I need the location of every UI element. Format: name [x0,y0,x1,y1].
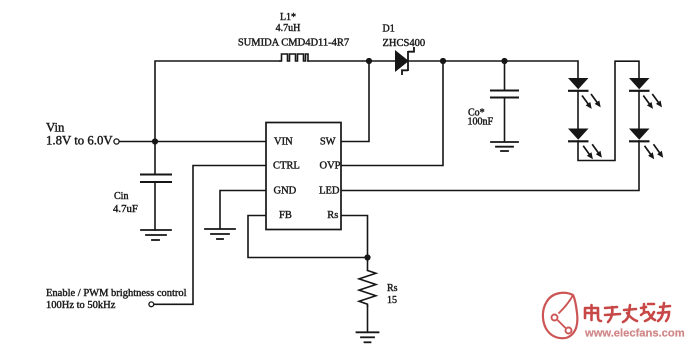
svg-text:D1: D1 [383,24,395,35]
terminal Vin input [114,139,119,144]
wire OVP pin to top rail [341,61,443,166]
LED D5 (string2 bottom) [629,129,663,160]
capacitor Cin plates [141,174,171,176]
svg-text:CTRL: CTRL [273,161,300,172]
svg-text:1.8V to 6.0V: 1.8V to 6.0V [46,134,113,148]
svg-text:LED: LED [319,186,340,197]
wire VIN input row [119,141,266,143]
resistor Rs zigzag [359,271,376,307]
watermark logo elecfans [543,293,577,338]
LED D3 (string1 bottom) [568,129,602,160]
wire junction to resistor [367,258,369,271]
svg-text:SUMIDA CMD4D11-4R7: SUMIDA CMD4D11-4R7 [238,38,349,49]
svg-text:100nF: 100nF [468,117,494,128]
LED D4 (string2 top) [629,78,662,109]
wire resistor to ground [367,306,369,332]
IC U1 box [266,123,341,230]
wire top rail left segment (Vin node up to inductor) [155,61,280,142]
wire CTRL pin to enable terminal [155,166,267,305]
svg-text:Rs: Rs [327,210,338,221]
svg-text:4.7uH: 4.7uH [276,23,301,34]
wire SW pin to top rail [341,61,369,142]
LED D2 (string1 top) [568,78,601,109]
svg-text:15: 15 [387,295,397,306]
svg-text:4.7uF: 4.7uF [113,203,138,215]
wire FB pin loop to Rs top [248,216,368,258]
svg-text:GND: GND [274,186,297,197]
wire top rail inductor to diode anode [308,60,396,62]
node junction OVP/diode cathode [440,58,446,64]
wire LED string1 bottom to string2 top link [578,61,639,160]
svg-text:Vin: Vin [46,121,65,135]
wire LED pin return [341,141,639,191]
svg-text:SW: SW [320,136,336,147]
node junction FB/Rs [364,254,370,260]
wire Cin top [154,142,156,175]
svg-text:Cin: Cin [114,191,128,202]
svg-text:OVP: OVP [319,161,340,172]
ground (Co) [491,142,518,151]
node junction Co top [501,58,507,64]
wire Co bottom [504,98,506,142]
svg-text:100Hz to 50kHz: 100Hz to 50kHz [46,300,116,311]
diode D1 (Schottky) [396,47,415,75]
wire LED string1 middle [577,91,579,129]
ground (GND pin) [205,229,235,239]
svg-text:VIN: VIN [274,136,293,147]
svg-text:Enable / PWM brightness contro: Enable / PWM brightness control [46,288,187,299]
svg-text:www.elecfans.com: www.elecfans.com [584,328,685,340]
wire LED string2 middle [638,91,640,129]
wire Rs pin to Rs top junction [341,216,368,258]
svg-text:L1*: L1* [280,12,296,23]
inductor L1 [280,54,308,61]
svg-text:ZHCS400: ZHCS400 [383,38,426,49]
wire Co top [504,61,506,90]
svg-text:FB: FB [279,210,292,221]
ground (Cin) [141,230,171,240]
node junction Vin [152,138,158,144]
terminal Enable/PWM input [149,302,154,307]
watermark text dianzifashaoyou [585,303,670,322]
capacitor Co plates [491,90,518,92]
wire GND pin to ground [220,191,266,229]
ground (Rs) [357,332,379,342]
wire top rail diode cathode to LED string 1 [408,61,578,78]
svg-text:Rs: Rs [387,283,398,294]
node junction SW/diode anode [366,58,372,64]
wire Cin bottom [154,182,156,230]
